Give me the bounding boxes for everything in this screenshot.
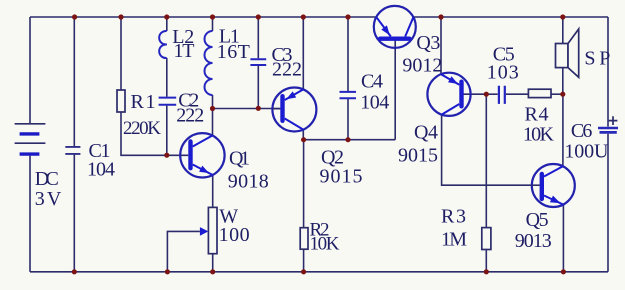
wire mid node to Q3 base corner [303, 139, 395, 141]
node Q4 emitter rail [438, 14, 443, 19]
wire R2 bottom lead [303, 249, 305, 272]
wire SP bottom lead [562, 68, 564, 95]
capacitor C4 [340, 71, 390, 114]
capacitor C6 100U electrolytic [564, 116, 618, 162]
node Q1 base [164, 153, 169, 158]
wire top rail right of Q3 [413, 16, 608, 18]
svg-text:104: 104 [87, 159, 115, 181]
wire Q2 collector down [302, 130, 304, 140]
capacitor C1 [65, 140, 115, 180]
wire C3 top lead [257, 17, 259, 58]
transistor Q5 9013 [515, 164, 575, 252]
svg-text:DC: DC [35, 168, 59, 190]
node Q2 collector [301, 137, 306, 142]
wire W wiper left and down [167, 231, 200, 271]
wire Q5 emitter down [562, 205, 564, 272]
wire left edge battery bottom [29, 156, 31, 272]
node Q5 emitter bottom [561, 269, 566, 274]
wire C4 top lead [347, 17, 349, 92]
wire R3 bottom lead [485, 250, 487, 272]
capacitor C5 [487, 44, 519, 104]
svg-text:9015: 9015 [320, 166, 363, 188]
speaker SP [556, 29, 611, 77]
svg-text:103: 103 [487, 62, 519, 84]
svg-text:220K: 220K [123, 118, 161, 139]
wire C3 bottom lead [257, 66, 259, 109]
node C1 bottom [72, 269, 77, 274]
svg-text:3 V: 3 V [35, 188, 62, 210]
node C4 bottom [345, 137, 350, 142]
resistor R2 [300, 219, 340, 254]
wire Q5 collector up [562, 94, 564, 166]
wire L2 top lead [166, 17, 168, 31]
wire C1 branch upper [73, 17, 75, 146]
wire R4 right lead [551, 93, 563, 95]
wire Q4 collector down and right to Q5 base [442, 115, 532, 186]
resistor R1 [117, 90, 161, 139]
svg-text:222: 222 [272, 59, 302, 81]
wire R3 top lead from C5 node [485, 94, 487, 227]
svg-text:Q4: Q4 [414, 122, 438, 144]
wire C5 left lead [486, 93, 497, 95]
svg-text:104: 104 [360, 92, 389, 114]
svg-text:R3: R3 [441, 206, 466, 228]
wire right edge above C6 [607, 17, 609, 127]
capacitor C3 [250, 44, 302, 81]
wire C5 right lead to R4 [506, 93, 529, 95]
svg-text:Q5: Q5 [526, 209, 549, 231]
node Q2 emitter rail [301, 14, 306, 19]
node W bottom [210, 269, 215, 274]
svg-text:100: 100 [219, 224, 250, 246]
node L2 top [164, 14, 169, 19]
node R4 SP Q5 [560, 92, 565, 97]
wire Q2 emitter to rail [302, 17, 304, 89]
wire C4 bottom lead [347, 98, 349, 139]
wire L1 top lead [212, 17, 214, 31]
wire right edge below C6 [607, 134, 609, 272]
wire L2 to C2 [166, 58, 168, 97]
svg-text:9013: 9013 [515, 230, 552, 252]
svg-text:Q1: Q1 [229, 148, 250, 170]
inductor L2 [159, 26, 194, 62]
wire bottom rail [30, 271, 608, 273]
node SP top [560, 14, 565, 19]
node R3 bottom [484, 269, 489, 274]
wire R1 top lead [120, 17, 122, 90]
svg-text:C6: C6 [571, 120, 593, 142]
wire Q4 base to C5 node [464, 93, 487, 95]
wire Q1 emitter to W [212, 175, 214, 207]
node W wiper bottom [165, 269, 170, 274]
node C3 top [256, 14, 261, 19]
potentiometer W 100 [200, 206, 250, 254]
node C1 top [72, 14, 77, 19]
wire left edge battery top [29, 17, 31, 123]
wire C1 branch lower [73, 154, 75, 271]
wire W bottom lead [212, 254, 214, 272]
svg-text:R1: R1 [131, 91, 156, 113]
svg-text:9018: 9018 [228, 171, 269, 193]
wire R1 bottom lead to Q1 base [121, 112, 188, 155]
resistor R4 [523, 89, 555, 145]
wire L1 bottom to Q1 collector [212, 95, 214, 136]
node R1 top [118, 14, 123, 19]
transistor Q3 9012 [374, 6, 443, 77]
node Q4 base C5 [484, 92, 489, 97]
wire Q3 base down [394, 40, 396, 140]
svg-text:16T: 16T [217, 41, 250, 63]
svg-text:R4: R4 [525, 104, 549, 126]
svg-text:1T: 1T [174, 40, 195, 62]
wire top rail left of Q3 [30, 16, 377, 18]
node Q1 collector [210, 106, 215, 111]
wire Q4 emitter drop [440, 17, 442, 74]
svg-text:10K: 10K [523, 124, 555, 146]
capacitor C2 [159, 89, 205, 126]
wire C2 to base node [166, 106, 168, 156]
wire node line to Q2 base [213, 108, 281, 110]
node L1 top [210, 14, 215, 19]
transistor Q4 9015 [398, 73, 471, 167]
resistor R3 [441, 206, 491, 251]
svg-text:9015: 9015 [398, 145, 438, 167]
transistor Q1 9018 [180, 133, 269, 192]
svg-text:Q3: Q3 [416, 32, 440, 54]
inductor L1 [204, 26, 249, 96]
battery BT DC 3V [15, 124, 46, 154]
node C4 top [345, 14, 350, 19]
svg-text:1M: 1M [441, 229, 467, 251]
svg-text:9012: 9012 [402, 55, 442, 77]
wire R2 top lead [303, 140, 305, 228]
svg-text:100U: 100U [564, 141, 609, 163]
svg-text:10K: 10K [310, 234, 340, 255]
node R2 bottom [301, 269, 306, 274]
svg-text:222: 222 [176, 104, 204, 126]
wire SP top lead [562, 17, 564, 43]
node C3 bottom [256, 106, 261, 111]
transistor Q2 9015 [272, 88, 362, 188]
svg-text:C4: C4 [361, 71, 383, 93]
